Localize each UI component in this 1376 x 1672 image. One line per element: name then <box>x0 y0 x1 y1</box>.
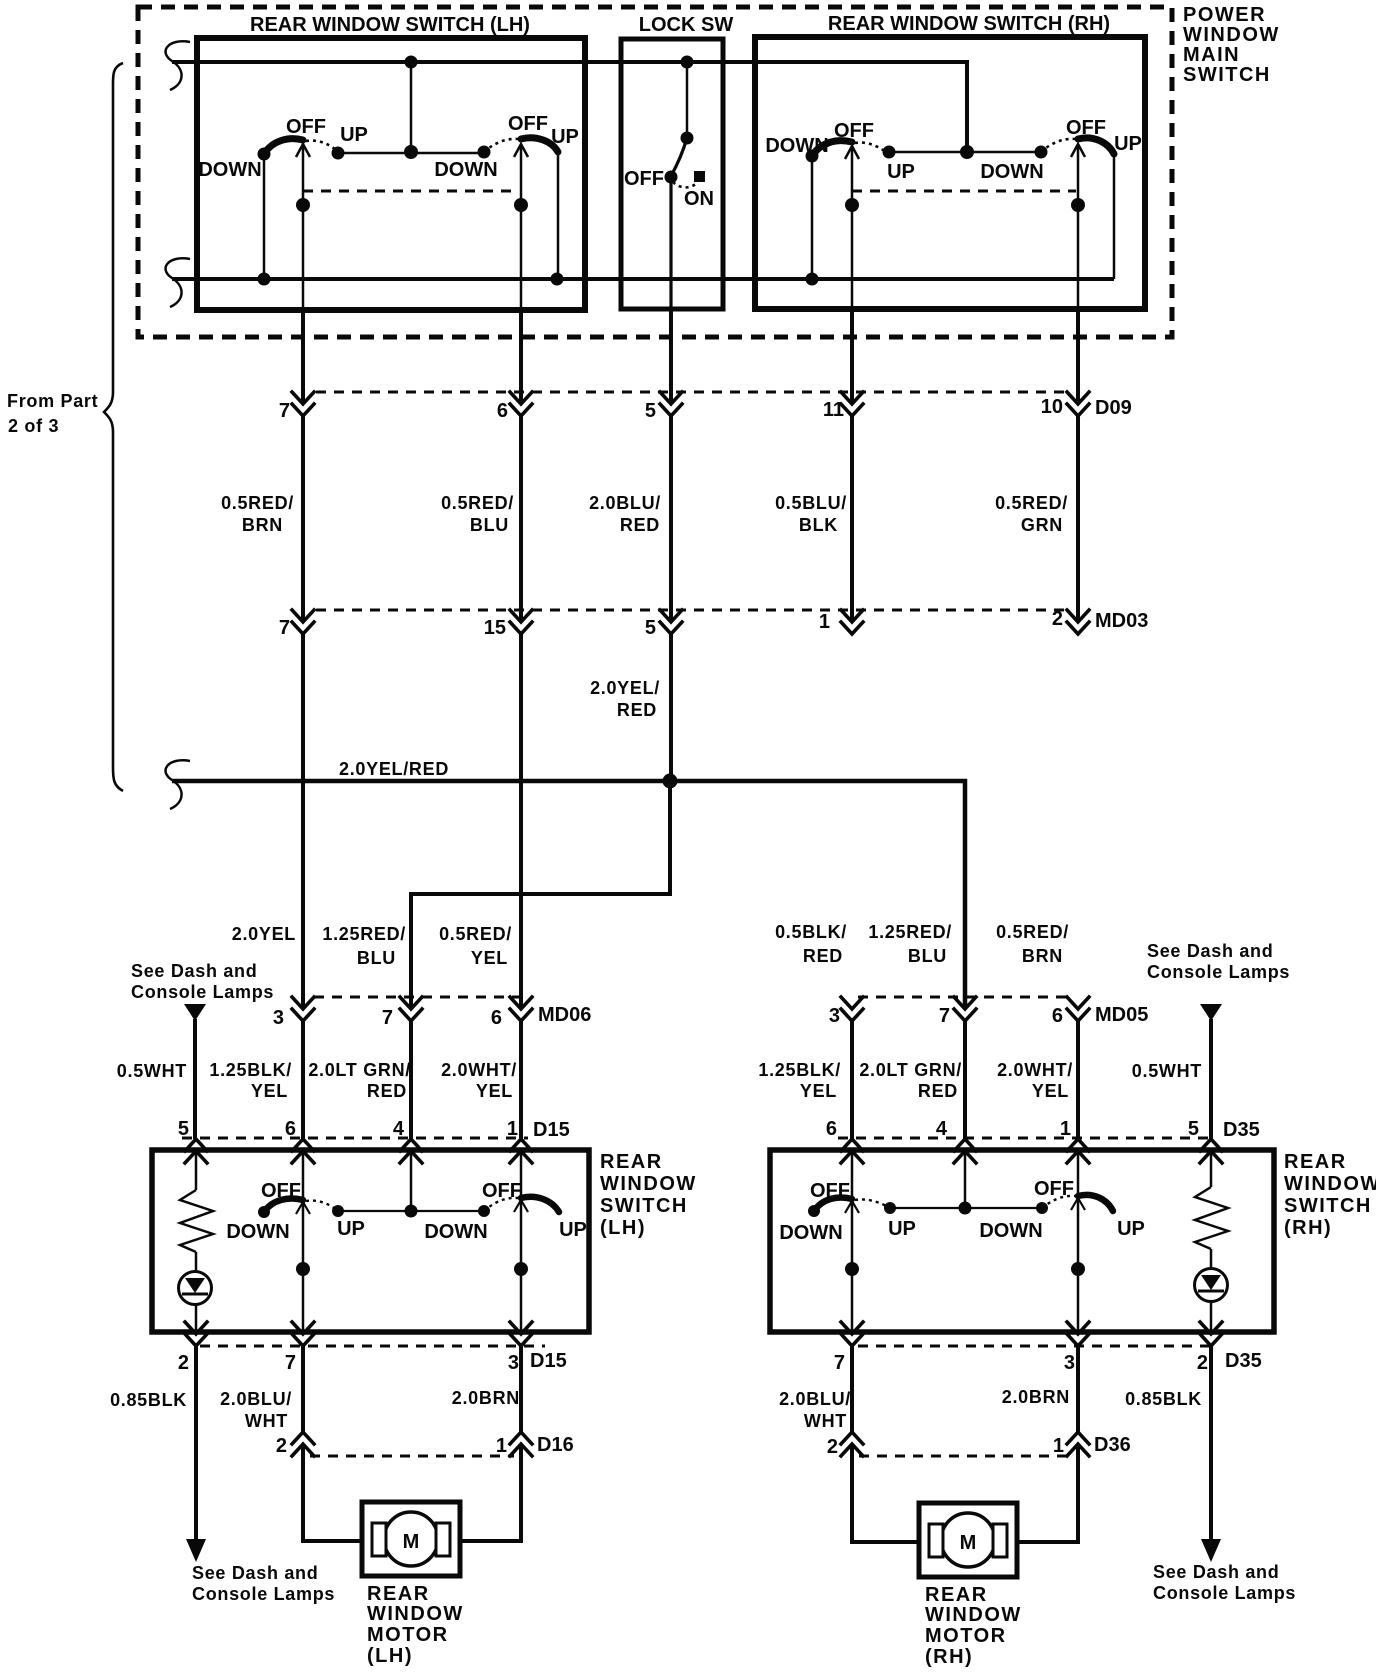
svg-text:See Dash and: See Dash and <box>192 1563 318 1583</box>
lower LH right dotted throw <box>484 1198 518 1211</box>
svg-text:UP: UP <box>337 1218 365 1240</box>
lower LH right pivot arrow <box>514 1200 528 1212</box>
wire MD03 pin15 down to MD06 pin6 <box>519 634 523 1009</box>
wire 0.5RED/BLU <box>519 416 523 622</box>
svg-text:1.25RED/: 1.25RED/ <box>868 922 952 942</box>
wire branch yel/red to MD06 pin7 <box>411 781 670 1009</box>
svg-text:7: 7 <box>834 1352 845 1374</box>
contact DOWN (RH right rocker) <box>1035 146 1048 159</box>
connector D35 top dashed row <box>838 1137 1216 1140</box>
svg-text:REAR: REAR <box>925 1584 988 1606</box>
svg-text:7: 7 <box>939 1005 950 1027</box>
RH mechanical link dashed <box>852 190 1076 193</box>
svg-text:D16: D16 <box>537 1434 574 1456</box>
svg-text:2.0WHT/: 2.0WHT/ <box>997 1060 1073 1080</box>
svg-text:WINDOW: WINDOW <box>1183 24 1280 46</box>
svg-text:1.25BLK/: 1.25BLK/ <box>209 1060 292 1080</box>
svg-text:1: 1 <box>496 1435 507 1457</box>
junction DOWN/bottom bus <box>258 273 271 286</box>
svg-text:From Part: From Part <box>7 391 98 411</box>
wire RH UP contact to bottom bus <box>1113 154 1116 279</box>
motor M1 rear window motor (LH) <box>362 1502 460 1576</box>
node center (lower RH) <box>959 1202 972 1215</box>
svg-text:6: 6 <box>826 1118 837 1140</box>
wire LH pin7 to D09 <box>301 310 305 404</box>
LED (RH illumination) <box>1195 1269 1228 1302</box>
svg-text:1.25BLK/: 1.25BLK/ <box>758 1060 841 1080</box>
svg-text:RED: RED <box>620 515 660 535</box>
svg-text:1.25RED/: 1.25RED/ <box>322 924 406 944</box>
svg-text:OFF: OFF <box>1066 117 1106 139</box>
wire RH pin1 to right pivot <box>1077 1153 1080 1196</box>
svg-text:M: M <box>403 1531 420 1553</box>
break symbol bottom bus <box>166 258 190 307</box>
arrow from dash/console lamps (right) <box>1200 1004 1222 1021</box>
wire LH pin7 inside box <box>302 146 305 310</box>
svg-text:RED: RED <box>367 1081 407 1101</box>
wire RH pin11 to D09 <box>850 309 854 404</box>
svg-text:WINDOW: WINDOW <box>600 1173 697 1195</box>
connector MD03 pin 5 <box>660 610 682 634</box>
LH right rocker lever (thick) <box>521 138 558 152</box>
svg-text:YEL: YEL <box>251 1081 288 1101</box>
svg-text:2.0BLU/: 2.0BLU/ <box>779 1389 851 1409</box>
svg-text:MOTOR: MOTOR <box>367 1624 449 1646</box>
connector MD05 pin 6 <box>1067 997 1089 1021</box>
wire RH dash lamp feed inside box <box>1210 1151 1213 1187</box>
connector D35 pin 1 <box>1067 1139 1089 1163</box>
svg-text:D35: D35 <box>1223 1119 1260 1141</box>
svg-text:WINDOW: WINDOW <box>1284 1173 1376 1195</box>
lower RH left rocker lever <box>814 1198 852 1212</box>
connector D15 pin 2 (bottom) <box>185 1322 207 1346</box>
wire 2.0YEL/RED vertical from MD03 pin5 <box>669 634 673 781</box>
connector D35 pin 6 <box>841 1139 863 1163</box>
svg-text:5: 5 <box>645 617 656 639</box>
svg-text:UP: UP <box>1114 133 1142 155</box>
wire D36 pin2 to motor RH <box>852 1444 919 1542</box>
svg-text:DOWN: DOWN <box>765 135 828 157</box>
wire RH right pivot to pin3 <box>1077 1196 1080 1332</box>
LH lower rocker contact bar <box>338 1210 484 1212</box>
svg-text:D15: D15 <box>530 1350 567 1372</box>
svg-text:0.5BLK/: 0.5BLK/ <box>775 922 847 942</box>
svg-text:(RH): (RH) <box>925 1646 973 1668</box>
svg-text:OFF: OFF <box>834 120 874 142</box>
LH right rocker pivot arrow <box>514 144 528 157</box>
connector D15 top dashed row <box>182 1137 528 1140</box>
lock switch OFF contact <box>665 171 678 184</box>
svg-text:2.0BRN: 2.0BRN <box>1002 1387 1070 1407</box>
lock switch feed wire <box>686 62 689 138</box>
svg-text:YEL: YEL <box>800 1081 837 1101</box>
svg-text:OFF: OFF <box>508 113 548 135</box>
svg-text:15: 15 <box>484 617 506 639</box>
LH right rocker dotted throw from DOWN <box>484 139 518 152</box>
connector D15 pin 7 (bottom) <box>292 1322 314 1346</box>
svg-text:D35: D35 <box>1225 1350 1262 1372</box>
wire MD05 pin6 to D35 pin1 <box>1076 1021 1080 1139</box>
svg-text:0.5WHT: 0.5WHT <box>1132 1061 1202 1081</box>
RH right rocker lever (thick) <box>1078 138 1114 154</box>
svg-text:YEL: YEL <box>471 948 508 968</box>
svg-text:POWER: POWER <box>1183 4 1266 26</box>
connector D09 pin 11 <box>841 392 863 416</box>
wire 2.0BRN (RH) <box>1076 1346 1080 1432</box>
rear window switch (RH) box <box>770 1150 1274 1332</box>
svg-text:0.5WHT: 0.5WHT <box>117 1061 187 1081</box>
svg-text:7: 7 <box>285 1352 296 1374</box>
connector MD05 pin 7 <box>954 997 976 1021</box>
svg-text:2.0WHT/: 2.0WHT/ <box>441 1060 517 1080</box>
svg-text:1: 1 <box>1060 1118 1071 1140</box>
svg-text:M: M <box>960 1532 977 1554</box>
svg-text:6: 6 <box>1052 1005 1063 1027</box>
svg-text:GRN: GRN <box>1021 515 1063 535</box>
wire MD06 pin7 to D15 pin4 <box>409 1021 413 1139</box>
wire RH pin11 inside box <box>851 148 854 309</box>
svg-text:10: 10 <box>1041 396 1063 418</box>
node RH switch center <box>960 145 974 159</box>
LH main switch: center tap wire <box>410 62 413 152</box>
node on pin3 wire <box>514 1262 528 1276</box>
node on LH pin7 wire <box>296 198 310 212</box>
label REAR WINDOW SWITCH (RH) <box>1284 1151 1376 1239</box>
svg-text:BRN: BRN <box>1022 946 1063 966</box>
rear window switch (RH) box (main switch section) <box>755 37 1145 309</box>
svg-text:MOTOR: MOTOR <box>925 1625 1007 1647</box>
svg-text:UP: UP <box>887 161 915 183</box>
svg-text:(LH): (LH) <box>367 1645 413 1667</box>
motor M2 rear window motor (RH) <box>919 1503 1017 1577</box>
lock switch box <box>621 39 723 309</box>
connector MD06 pin 3 <box>292 997 314 1021</box>
wire RH pin6 to left pivot <box>851 1153 854 1200</box>
wire RH pin4 to center <box>964 1153 967 1208</box>
RH rocker contact bar <box>889 151 1041 154</box>
resistor (RH illumination) <box>1195 1187 1228 1249</box>
svg-text:5: 5 <box>178 1118 189 1140</box>
lower RH right dotted throw <box>1042 1196 1075 1208</box>
lock switch ON terminal <box>694 171 705 182</box>
connector D36 dashed row <box>859 1455 1071 1458</box>
wire 0.85BLK (left) <box>194 1346 198 1542</box>
svg-text:5: 5 <box>1188 1118 1199 1140</box>
svg-text:2.0LT GRN/: 2.0LT GRN/ <box>308 1060 411 1080</box>
svg-text:OFF: OFF <box>482 1180 522 1202</box>
svg-text:RED: RED <box>918 1081 958 1101</box>
svg-text:3: 3 <box>1064 1352 1075 1374</box>
connector D09 pin 5 <box>660 392 682 416</box>
from part 2 of 3 bracket <box>104 63 123 791</box>
lock switch upper contact <box>681 132 694 145</box>
wire D36 pin1 to motor RH <box>1017 1444 1078 1542</box>
connector MD05 dashed row <box>858 996 1072 999</box>
lock switch lever <box>671 138 687 176</box>
svg-text:5: 5 <box>645 400 656 422</box>
RH left rocker dotted throw to UP <box>855 143 888 154</box>
contact DOWN (LH left rocker) <box>258 148 271 161</box>
arrow to dash/console lamps (right) <box>1201 1539 1221 1562</box>
wire D16 pin1 to motor LH <box>460 1444 521 1541</box>
svg-text:RED: RED <box>803 946 843 966</box>
label POWER WINDOW MAIN SWITCH <box>1183 4 1280 86</box>
svg-text:YEL: YEL <box>476 1081 513 1101</box>
contact DOWN (LH right rocker) <box>478 146 491 159</box>
wire right pivot to pin3 <box>520 1198 523 1332</box>
svg-text:Console Lamps: Console Lamps <box>131 982 274 1002</box>
svg-text:6: 6 <box>491 1007 502 1029</box>
svg-text:2: 2 <box>276 1435 287 1457</box>
svg-text:2.0BRN: 2.0BRN <box>452 1388 520 1408</box>
svg-text:MAIN: MAIN <box>1183 44 1240 66</box>
svg-text:SWITCH: SWITCH <box>1284 1195 1372 1217</box>
svg-text:2: 2 <box>827 1436 838 1458</box>
svg-text:Console Lamps: Console Lamps <box>192 1584 335 1604</box>
LH mechanical link dashed <box>303 190 518 193</box>
svg-text:See Dash and: See Dash and <box>131 961 257 981</box>
wire resistor to LED (RH) <box>1210 1249 1213 1268</box>
wire LED to pin2 (RH) <box>1210 1300 1213 1332</box>
svg-text:2.0YEL/RED: 2.0YEL/RED <box>339 759 449 779</box>
svg-text:REAR: REAR <box>600 1151 663 1173</box>
wire 0.5BLU/BLK <box>850 416 854 622</box>
svg-text:6: 6 <box>285 1118 296 1140</box>
junction yel/red bus <box>663 774 678 789</box>
svg-text:2: 2 <box>1052 608 1063 630</box>
svg-text:Console Lamps: Console Lamps <box>1153 1583 1296 1603</box>
svg-text:MD06: MD06 <box>538 1004 591 1026</box>
lower RH left dotted throw <box>855 1199 890 1208</box>
svg-text:11: 11 <box>823 399 844 421</box>
label REAR WINDOW MOTOR (LH) <box>367 1583 464 1667</box>
wire LH pin6 inside box <box>520 146 523 310</box>
svg-text:0.85BLK: 0.85BLK <box>110 1390 187 1410</box>
svg-text:OFF: OFF <box>1034 1178 1074 1200</box>
connector D35 pin 5 <box>1200 1139 1222 1163</box>
svg-text:See Dash and: See Dash and <box>1153 1562 1279 1582</box>
svg-text:7: 7 <box>279 617 290 639</box>
svg-text:0.5RED/: 0.5RED/ <box>439 924 512 944</box>
svg-text:2.0LT GRN/: 2.0LT GRN/ <box>859 1060 962 1080</box>
svg-text:BLK: BLK <box>799 515 838 535</box>
connector D15 pin 5 <box>185 1139 207 1163</box>
svg-text:0.5BLU/: 0.5BLU/ <box>775 493 847 513</box>
connector MD06 pin 7 <box>400 997 422 1021</box>
wire LED to pin2 <box>195 1303 198 1332</box>
wire MD03 pin7 down to MD06 pin3 <box>301 634 305 1009</box>
wire MD06 pin6 to D15 pin1 <box>519 1021 523 1139</box>
lock switch dotted throw to ON <box>673 182 697 187</box>
svg-text:OFF: OFF <box>261 1180 301 1202</box>
svg-text:OFF: OFF <box>624 168 664 190</box>
svg-text:MD05: MD05 <box>1095 1004 1148 1026</box>
connector MD03 pin 2 <box>1067 610 1089 634</box>
connector MD03 pin 1 <box>841 610 863 634</box>
wire MD05 pin3 to D35 pin6 <box>850 1021 854 1139</box>
svg-text:1: 1 <box>819 611 830 633</box>
RH right rocker dotted throw <box>1041 139 1075 152</box>
connector D09 pin 10 <box>1067 392 1089 416</box>
svg-text:3: 3 <box>273 1007 284 1029</box>
contact UP (RH left rocker) <box>883 146 896 159</box>
connector D16 dashed row <box>310 1455 514 1458</box>
svg-text:DOWN: DOWN <box>979 1220 1042 1242</box>
lower RH right pivot arrow <box>1071 1198 1085 1210</box>
svg-text:BLU: BLU <box>470 515 509 535</box>
resistor (LH illumination) <box>180 1190 213 1252</box>
svg-text:3: 3 <box>508 1352 519 1374</box>
LH left rocker dotted throw to UP <box>306 141 338 152</box>
RH left rocker pivot arrow <box>845 146 859 159</box>
svg-text:WHT: WHT <box>804 1411 847 1431</box>
svg-text:2: 2 <box>1197 1352 1208 1374</box>
connector MD03 dashed row <box>316 609 1064 612</box>
contact DOWN (lower RH right) <box>1036 1202 1048 1214</box>
wire LH UP contact to bottom bus <box>557 152 560 279</box>
contact UP (lower RH left) <box>884 1202 896 1214</box>
connector D15 pin 4 <box>400 1139 422 1163</box>
junction UP/bottom bus <box>551 273 564 286</box>
LH left rocker pivot arrow <box>296 144 310 157</box>
svg-text:0.5RED/: 0.5RED/ <box>995 493 1068 513</box>
svg-text:2 of 3: 2 of 3 <box>8 416 59 436</box>
node center (lower LH) <box>405 1205 418 1218</box>
svg-text:3: 3 <box>829 1005 840 1027</box>
LED (LH illumination) <box>179 1272 212 1305</box>
svg-text:D36: D36 <box>1094 1434 1131 1456</box>
svg-text:2.0BLU/: 2.0BLU/ <box>220 1389 292 1409</box>
wire LH pin6 to left pivot <box>302 1153 305 1200</box>
wire 2.0YEL/RED horizontal bus <box>172 781 965 1009</box>
wire RH pin10 to D09 <box>1076 309 1080 404</box>
svg-text:0.85BLK: 0.85BLK <box>1125 1389 1202 1409</box>
connector D35 bottom dashed row <box>858 1345 1215 1348</box>
node on LH pin6 wire <box>514 198 528 212</box>
svg-text:Console Lamps: Console Lamps <box>1147 962 1290 982</box>
contact UP (LH left rocker) <box>332 147 345 160</box>
svg-text:DOWN: DOWN <box>980 161 1043 183</box>
wire top supply bus <box>172 62 967 152</box>
svg-text:7: 7 <box>382 1007 393 1029</box>
svg-text:4: 4 <box>936 1118 948 1140</box>
connector D15 bottom dashed row <box>200 1345 545 1348</box>
node on RH pin3 wire <box>1071 1262 1085 1276</box>
lower LH left dotted throw <box>306 1201 338 1211</box>
rear window switch (LH) box <box>152 1150 589 1332</box>
svg-text:REAR: REAR <box>1284 1151 1347 1173</box>
svg-text:MD03: MD03 <box>1095 610 1148 632</box>
connector D15 pin 3 (bottom) <box>510 1322 532 1346</box>
svg-text:1: 1 <box>507 1118 518 1140</box>
wire 0.5RED/GRN <box>1076 416 1080 622</box>
svg-text:WINDOW: WINDOW <box>367 1603 464 1625</box>
connector D36 pin 1 <box>1067 1432 1089 1456</box>
wire lock sw to D09 <box>669 177 672 309</box>
svg-text:UP: UP <box>551 126 579 148</box>
connector MD06 pin 6 <box>510 997 532 1021</box>
arrow to dash/console lamps (left) <box>186 1539 206 1562</box>
junction top bus / LH tap <box>405 56 418 69</box>
wire 0.85BLK (right) <box>1209 1346 1213 1542</box>
svg-text:UP: UP <box>340 124 368 146</box>
svg-text:BLU: BLU <box>908 946 947 966</box>
node LH switch center <box>404 145 418 159</box>
lower LH left pivot arrow <box>296 1202 310 1214</box>
svg-text:6: 6 <box>497 400 508 422</box>
svg-text:WINDOW: WINDOW <box>925 1604 1022 1626</box>
connector D36 pin 2 <box>841 1432 863 1456</box>
label REAR WINDOW MOTOR (RH) <box>925 1584 1022 1668</box>
node on RH pin7 wire <box>845 1262 859 1276</box>
label REAR WINDOW SWITCH (LH) <box>600 1151 697 1239</box>
svg-text:UP: UP <box>888 1218 916 1240</box>
wire LH DOWN contact to bottom bus <box>263 154 266 279</box>
wire 0.5WHT (right) <box>1209 1019 1213 1139</box>
svg-text:0.5RED/: 0.5RED/ <box>996 922 1069 942</box>
wire 2.0BRN (LH) <box>519 1346 523 1432</box>
wire 2.0BLU/WHT (LH) <box>301 1346 305 1432</box>
RH left rocker lever (thick) <box>812 141 852 156</box>
contact DOWN (lower LH left) <box>258 1206 270 1218</box>
LH left rocker lever (thick) <box>264 139 303 154</box>
svg-text:UP: UP <box>559 1219 587 1241</box>
svg-text:DOWN: DOWN <box>434 159 497 181</box>
svg-text:DOWN: DOWN <box>779 1222 842 1244</box>
power window main switch outer dashed box <box>138 7 1172 337</box>
break symbol yel/red bus <box>166 760 190 809</box>
wire MD05 pin7 to D35 pin4 <box>963 1021 967 1139</box>
wire LH dash lamp feed inside box <box>195 1151 198 1190</box>
svg-text:(RH): (RH) <box>1284 1217 1332 1239</box>
svg-text:LOCK SW: LOCK SW <box>639 14 734 36</box>
lower LH left rocker lever <box>264 1199 303 1213</box>
svg-text:BLU: BLU <box>357 948 396 968</box>
connector D09 pin 6 <box>510 392 532 416</box>
svg-text:D15: D15 <box>533 1119 570 1141</box>
lower RH right rocker lever <box>1078 1195 1113 1211</box>
connector D35 pin 7 (bottom) <box>841 1322 863 1346</box>
connector MD05 pin 3 <box>841 997 863 1021</box>
wire 2.0BLU/RED <box>669 416 673 622</box>
svg-text:4: 4 <box>393 1118 405 1140</box>
wire bottom bus <box>172 277 1114 281</box>
svg-text:2.0YEL: 2.0YEL <box>232 924 296 944</box>
node on RH pin11 wire <box>845 198 859 212</box>
connector D35 pin 2 (bottom) <box>1200 1322 1222 1346</box>
wire 0.5RED/BRN <box>301 416 305 622</box>
RH right rocker pivot arrow <box>1071 144 1085 157</box>
svg-text:BRN: BRN <box>242 515 283 535</box>
svg-text:2.0BLU/: 2.0BLU/ <box>589 493 661 513</box>
svg-text:REAR WINDOW SWITCH (LH): REAR WINDOW SWITCH (LH) <box>250 14 530 36</box>
wire MD06 pin3 to D15 pin6 <box>301 1021 305 1139</box>
wire LH pin4 to center <box>410 1153 413 1211</box>
svg-text:ON: ON <box>684 188 714 210</box>
svg-text:REAR WINDOW SWITCH (RH): REAR WINDOW SWITCH (RH) <box>828 13 1110 35</box>
break symbol top bus <box>166 41 190 90</box>
svg-text:OFF: OFF <box>810 1180 850 1202</box>
svg-text:2: 2 <box>178 1352 189 1374</box>
wire LH pin1 to right pivot <box>520 1153 523 1198</box>
connector D16 pin 1 <box>510 1432 532 1456</box>
svg-text:YEL: YEL <box>1032 1081 1069 1101</box>
RH lower rocker contact bar <box>890 1207 1042 1209</box>
node on pin7 wire <box>296 1262 310 1276</box>
connector D35 pin 4 <box>954 1139 976 1163</box>
svg-text:DOWN: DOWN <box>226 1221 289 1243</box>
rear window switch (LH) box (main switch section) <box>197 38 585 310</box>
